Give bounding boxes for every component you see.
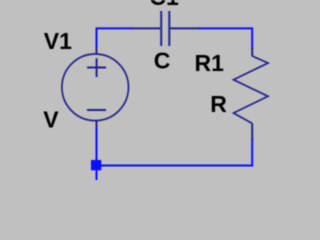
node junction square xyxy=(91,160,101,170)
svg-text:V1: V1 xyxy=(44,28,72,54)
voltage source V1 xyxy=(62,48,129,128)
C1 left plate xyxy=(160,11,162,46)
svg-text:R: R xyxy=(210,91,227,117)
V1 minus sign xyxy=(87,109,106,111)
wire: top-right horizontal segment and right riser to R1 xyxy=(199,28,252,48)
resistor R1 xyxy=(234,48,269,141)
wire: V1 bottom to junction and ground stub (cut off) xyxy=(96,127,98,180)
C1 right pin lead xyxy=(170,27,199,29)
V1 circle body xyxy=(62,54,129,121)
V1 top pin lead xyxy=(96,48,98,55)
R1 top pin lead xyxy=(251,48,253,57)
R1 zigzag body xyxy=(234,56,269,123)
svg-text:C: C xyxy=(154,48,171,74)
V1 bottom pin lead xyxy=(96,121,98,128)
wire: V1 top riser and top-left horizontal segment xyxy=(97,28,132,48)
wire: R1 bottom riser, bottom horizontal segment xyxy=(97,140,253,166)
C1 right plate xyxy=(168,11,170,46)
svg-text:V: V xyxy=(43,107,59,133)
capacitor C1 xyxy=(131,11,200,46)
svg-text:C1: C1 xyxy=(149,0,179,10)
C1 left pin lead xyxy=(131,27,161,29)
R1 bottom pin lead xyxy=(251,123,253,140)
svg-text:R1: R1 xyxy=(195,50,225,76)
V1 plus sign xyxy=(87,58,106,77)
